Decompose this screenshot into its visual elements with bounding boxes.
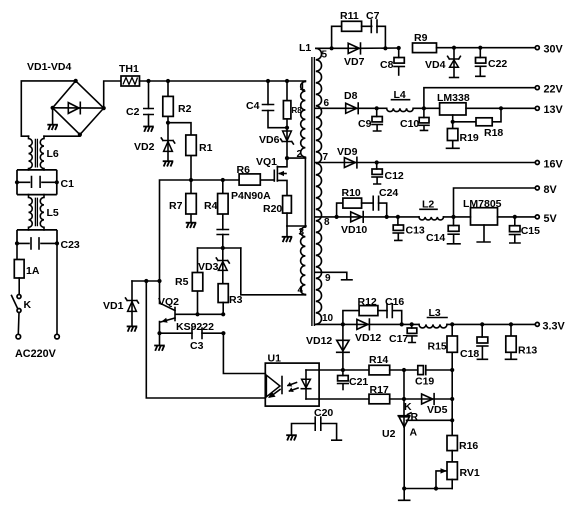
capacitor C8	[380, 46, 404, 75]
capacitor C19	[415, 366, 454, 388]
wire (pin 5)	[316, 47, 361, 49]
svg-text:C24: C24	[379, 187, 398, 199]
svg-text:R3: R3	[229, 294, 243, 306]
wire (R17 rail from U1)	[306, 398, 369, 400]
capacitor C21	[338, 368, 369, 390]
transformer L1 secondary winding 5-10	[316, 48, 334, 324]
svg-text:5V: 5V	[544, 213, 558, 225]
resistor R7	[169, 180, 196, 222]
switch K	[12, 278, 32, 334]
node 13V terminal	[535, 104, 563, 116]
svg-text:R12: R12	[358, 296, 377, 308]
svg-text:VD1-VD4: VD1-VD4	[27, 61, 72, 73]
resistor R2	[163, 79, 192, 123]
capacitor C20	[292, 407, 342, 440]
svg-text:C2: C2	[126, 106, 140, 118]
svg-text:C9: C9	[358, 118, 372, 130]
diode VD7	[344, 43, 399, 68]
capacitor C13	[393, 215, 425, 241]
resistor R4	[204, 180, 228, 230]
node 8V terminal	[535, 184, 557, 196]
wire (pin 3)	[287, 225, 306, 227]
wire (bridge bottom node to L6 right)	[44, 135, 80, 137]
MOSFET VQ1 P4N90A	[231, 156, 289, 202]
svg-text:C16: C16	[385, 296, 404, 308]
wire (bridge right node to TH1)	[104, 81, 121, 108]
inductor L2	[419, 199, 443, 220]
inductor L5 (common-mode choke)	[29, 195, 59, 230]
svg-text:C21: C21	[349, 376, 368, 388]
wire (VD1 node)	[132, 280, 160, 282]
node AC terminal left	[16, 334, 21, 339]
svg-text:TH1: TH1	[119, 63, 139, 75]
svg-text:6: 6	[324, 98, 330, 109]
node 16V terminal	[535, 159, 563, 171]
wire (to optocoupler lower)	[146, 281, 265, 398]
transformer L1 primary winding 1-2	[297, 81, 306, 160]
svg-text:R18: R18	[484, 127, 503, 139]
potentiometer RV1	[436, 451, 480, 489]
svg-text:C10: C10	[400, 118, 419, 130]
diode VD9	[337, 146, 535, 168]
capacitor C15	[510, 217, 541, 243]
svg-text:VD7: VD7	[344, 56, 365, 68]
resistor R16	[447, 436, 478, 453]
svg-text:C12: C12	[385, 170, 404, 182]
wire (3.3V rail)	[447, 323, 535, 325]
svg-text:16V: 16V	[544, 159, 564, 171]
transformer L1 core	[299, 42, 314, 326]
wire (22V branch)	[424, 88, 535, 109]
svg-text:4: 4	[298, 285, 304, 296]
svg-text:10: 10	[322, 313, 334, 324]
wire (pin 7)	[316, 162, 357, 164]
fuse 1A	[14, 243, 40, 278]
thermistor TH1	[119, 63, 140, 86]
svg-text:R6: R6	[237, 164, 251, 176]
capacitor C10	[400, 108, 429, 130]
diode VD12 (shunt, vertical)	[306, 324, 349, 370]
svg-text:9: 9	[325, 273, 331, 284]
svg-text:VD1: VD1	[103, 300, 124, 312]
resistor R18	[451, 108, 504, 139]
wire (pin 8)	[316, 216, 363, 218]
wire (LM338 out to 13V)	[466, 107, 535, 109]
svg-text:KS9222: KS9222	[176, 321, 214, 333]
svg-text:C13: C13	[406, 225, 425, 237]
svg-text:U1: U1	[268, 353, 282, 365]
resistor R9	[413, 32, 437, 53]
svg-text:R2: R2	[178, 103, 192, 115]
svg-text:C22: C22	[488, 58, 507, 70]
node 5V terminal	[535, 213, 557, 225]
wire (feedback bottom rail)	[404, 488, 452, 490]
svg-text:AC220V: AC220V	[15, 348, 57, 360]
ground (R7)	[186, 223, 197, 228]
capacitor C7	[362, 10, 388, 50]
svg-text:C7: C7	[366, 10, 380, 22]
svg-text:C19: C19	[415, 376, 434, 388]
diode VD12 (series)	[355, 319, 419, 344]
ground (pin 3 / R20)	[282, 226, 293, 242]
resistor R14	[369, 354, 390, 375]
svg-text:LM338: LM338	[437, 92, 470, 104]
capacitor (unlabeled, below R4)	[217, 230, 228, 249]
inductor L6 (common-mode choke)	[29, 136, 59, 170]
regulator LM7805	[463, 198, 502, 242]
svg-text:R4: R4	[204, 200, 218, 212]
resistor R15	[428, 322, 458, 370]
wire (pin 2)	[287, 157, 305, 159]
svg-text:8: 8	[324, 217, 330, 228]
optocoupler U1	[265, 353, 319, 407]
capacitor C22	[476, 46, 508, 77]
svg-text:R16: R16	[459, 440, 478, 452]
wire (R14 rail from U1)	[306, 369, 369, 371]
inductor L4	[387, 89, 413, 112]
svg-text:1: 1	[300, 82, 306, 93]
resistor R10	[335, 187, 362, 219]
svg-text:A: A	[410, 427, 418, 439]
svg-text:U2: U2	[382, 428, 396, 440]
capacitor C3	[157, 328, 225, 352]
resistor R12	[341, 296, 378, 327]
wire (R14 to C19 node)	[390, 369, 418, 371]
svg-text:8V: 8V	[544, 184, 558, 196]
wire (R17 to K node)	[390, 398, 404, 400]
svg-text:VQ2: VQ2	[158, 296, 179, 308]
svg-text:7: 7	[323, 152, 329, 163]
transformer L1 primary winding 3-4	[298, 227, 306, 296]
wire (R15 node down)	[451, 370, 453, 436]
svg-text:R7: R7	[169, 200, 183, 212]
svg-text:VD12: VD12	[306, 335, 332, 347]
zener diode VD4	[425, 46, 460, 78]
svg-text:LM7805: LM7805	[463, 198, 502, 210]
svg-text:C15: C15	[521, 225, 540, 237]
svg-text:30V: 30V	[544, 44, 564, 56]
svg-text:P4N90A: P4N90A	[231, 190, 271, 202]
wire (TH1 to main rail)	[140, 80, 306, 82]
capacitor C14	[426, 217, 460, 244]
zener diode VD1	[103, 281, 139, 326]
wire (pin 10)	[316, 323, 370, 325]
svg-text:RV1: RV1	[460, 467, 480, 479]
svg-text:R11: R11	[340, 10, 359, 22]
shunt regulator U2 (TL431)	[382, 399, 419, 500]
ground (C2)	[143, 127, 154, 132]
capacitor C23	[15, 230, 80, 251]
wire (VD3 node rail)	[198, 247, 241, 249]
resistor R6	[237, 164, 261, 185]
svg-text:VD5: VD5	[427, 404, 448, 416]
resistor R5	[175, 248, 203, 314]
svg-text:3: 3	[299, 227, 305, 238]
svg-text:K: K	[24, 299, 32, 311]
svg-text:VD10: VD10	[341, 224, 367, 236]
svg-text:VQ1: VQ1	[256, 156, 277, 168]
svg-text:L1: L1	[299, 42, 311, 54]
resistor R17	[369, 384, 390, 404]
wire (node to pin4)	[241, 248, 306, 295]
resistor R3	[218, 284, 242, 315]
svg-text:3.3V: 3.3V	[543, 321, 566, 333]
capacitor C1	[15, 170, 74, 195]
svg-text:1A: 1A	[26, 265, 40, 277]
ground (C20)	[286, 435, 297, 440]
svg-text:C20: C20	[314, 407, 333, 419]
capacitor C17	[389, 322, 417, 345]
resistor R19	[447, 122, 479, 149]
svg-text:C23: C23	[61, 239, 80, 251]
svg-text:VD6: VD6	[259, 134, 280, 146]
wire (gate drive rail)	[160, 180, 240, 281]
svg-text:VD3: VD3	[198, 261, 219, 273]
svg-text:22V: 22V	[544, 84, 564, 96]
svg-text:VD2: VD2	[134, 141, 155, 153]
svg-text:R: R	[411, 411, 419, 423]
wire (bridge top node to L6 left)	[21, 81, 75, 136]
svg-text:D8: D8	[344, 90, 358, 102]
node 22V terminal	[535, 84, 563, 96]
capacitor C18	[460, 322, 488, 360]
svg-text:R5: R5	[175, 276, 189, 288]
capacitor C4	[246, 79, 287, 128]
ground (VD1)	[127, 326, 138, 331]
zener diode VD6	[259, 128, 293, 158]
svg-text:C3: C3	[190, 340, 204, 352]
resistor R13	[506, 322, 538, 359]
transformer L1 primary link 2-3	[304, 158, 306, 227]
svg-text:R19: R19	[460, 132, 479, 144]
svg-text:L4: L4	[394, 89, 406, 101]
svg-text:L3: L3	[429, 307, 441, 319]
wire (pin8 to L2)	[398, 216, 419, 218]
capacitor C2	[126, 79, 153, 126]
wire (LM7805 out to 5V)	[498, 216, 535, 218]
capacitor C16	[378, 296, 405, 327]
svg-text:C17: C17	[389, 333, 408, 345]
svg-text:R10: R10	[342, 187, 361, 199]
svg-text:L6: L6	[47, 148, 59, 160]
wire (L4 to LM338)	[413, 107, 439, 109]
svg-text:C4: C4	[246, 100, 260, 112]
svg-text:C1: C1	[61, 178, 75, 190]
inductor L3	[419, 307, 447, 328]
wire (R14 node to K node)	[403, 370, 405, 399]
wire (C23 right to AC terminal)	[56, 243, 58, 334]
node 30V terminal	[535, 44, 563, 56]
svg-text:L2: L2	[422, 199, 434, 211]
ground (VD2)	[163, 161, 174, 166]
resistor R11	[330, 10, 362, 50]
svg-text:VD12: VD12	[355, 332, 381, 344]
wire (pin 6)	[316, 107, 358, 109]
resistor R8	[283, 79, 302, 130]
svg-text:C18: C18	[460, 348, 479, 360]
svg-text:L5: L5	[47, 207, 59, 219]
svg-text:R1: R1	[199, 142, 213, 154]
wire (pin 9) with stub terminator	[316, 272, 352, 280]
svg-text:C14: C14	[426, 232, 445, 244]
diode VD5	[404, 394, 454, 416]
capacitor C24	[362, 187, 399, 219]
svg-text:R20: R20	[263, 203, 282, 215]
node 3.3V terminal	[535, 321, 565, 333]
svg-text:VD9: VD9	[337, 146, 358, 158]
svg-text:R9: R9	[414, 32, 428, 44]
capacitor C12	[372, 160, 404, 184]
wire (30V rail)	[437, 47, 535, 49]
resistor R1	[168, 123, 213, 180]
ground (bridge left node)	[47, 108, 58, 130]
wire (to optocoupler upper)	[223, 333, 265, 373]
regulator LM338	[437, 92, 470, 122]
diode D8	[344, 90, 377, 114]
svg-text:R17: R17	[370, 384, 389, 396]
svg-text:R14: R14	[369, 354, 388, 366]
svg-text:R15: R15	[428, 341, 447, 353]
capacitor C9	[358, 106, 382, 131]
resistor R20	[263, 196, 291, 226]
bridge rectifier VD1-VD4	[27, 61, 106, 137]
wire (8V branch)	[454, 188, 535, 217]
ground (VQ2 emitter)	[154, 333, 165, 351]
transistor VQ2 KS9222	[158, 281, 225, 333]
zener diode VD3	[198, 248, 229, 284]
svg-text:5: 5	[322, 50, 328, 61]
wire (pin6 to L4)	[377, 107, 387, 109]
svg-text:VD4: VD4	[425, 59, 446, 71]
node AC terminal right	[55, 334, 60, 339]
svg-text:R13: R13	[518, 345, 537, 357]
zener diode VD2	[134, 121, 175, 161]
diode VD10	[341, 212, 398, 236]
svg-text:C8: C8	[380, 59, 394, 71]
wire (L2 to LM7805)	[444, 216, 471, 218]
svg-text:13V: 13V	[544, 104, 564, 116]
wire (U2 ref to divider node)	[407, 419, 453, 421]
